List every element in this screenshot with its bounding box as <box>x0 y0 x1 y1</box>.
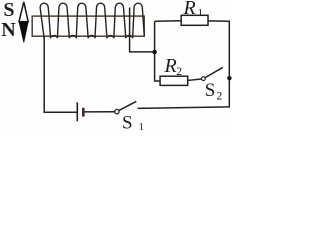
switch S2 blade (open) <box>205 67 223 77</box>
svg-text:R: R <box>164 55 177 77</box>
resistor R2 <box>160 76 188 85</box>
wire: battery to switch S1 <box>85 111 115 113</box>
switch S2 fixed terminal dot on right rail <box>227 76 231 80</box>
solenoid core rectangle <box>32 16 144 36</box>
battery long plate (positive) <box>76 102 78 121</box>
svg-text:S: S <box>205 80 216 101</box>
coil winding (6 turns) <box>40 3 144 38</box>
svg-text:1: 1 <box>139 122 144 132</box>
switch S2 pivot <box>202 77 206 81</box>
svg-text:2: 2 <box>176 66 182 78</box>
wire: S1 to right rail (bottom) <box>138 107 230 109</box>
svg-text:R: R <box>183 0 196 19</box>
wire: left lead from coil down to battery <box>44 37 76 113</box>
wire: R2 to switch S2 <box>188 79 202 80</box>
compass needle (magnet test needle, top half outline, bottom half filled) <box>19 2 28 43</box>
battery short plate (negative) <box>82 108 85 117</box>
resistor R1 <box>181 15 208 25</box>
switch S1 blade (open) <box>119 101 136 110</box>
wire: right rail vertical <box>228 21 230 107</box>
wire: right lead from coil down and right to junction <box>130 8 155 52</box>
switch S1 pivot <box>115 109 119 113</box>
wire: branch vertical (R1 top corner down to R2) <box>155 21 161 81</box>
wire: R1 to right rail <box>208 20 230 22</box>
svg-text:N: N <box>1 19 16 41</box>
svg-text:S: S <box>122 113 133 132</box>
wire: top wire to R1 <box>155 20 182 22</box>
svg-text:2: 2 <box>217 91 223 103</box>
svg-text:S: S <box>3 0 14 21</box>
svg-text:1: 1 <box>198 7 204 19</box>
node junction dot at branch <box>152 50 157 55</box>
